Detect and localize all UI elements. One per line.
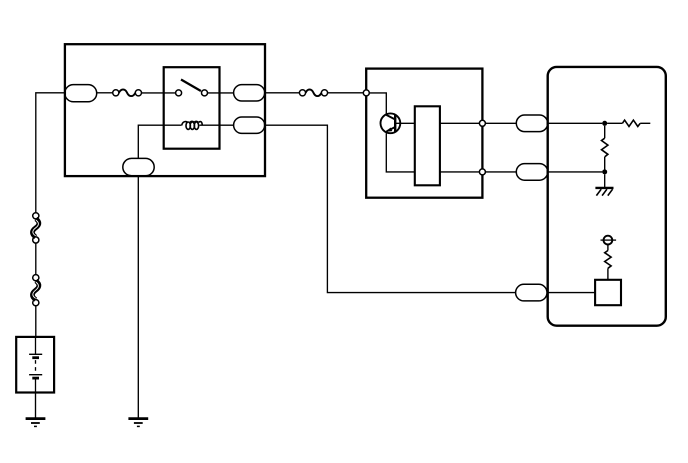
transistor Q1 [381, 113, 401, 133]
chassis ground in ECU [595, 188, 613, 196]
connector pill E [516, 115, 547, 132]
battery BAT1 [29, 337, 42, 393]
wire circle to transistor [369, 93, 386, 115]
wire coil feed riser from pill D [138, 125, 181, 158]
wire pill A to fuse F1 [97, 92, 113, 94]
wire fusible link to battery [35, 306, 37, 337]
wire driver to connector circle top [440, 122, 479, 124]
wire switch to pill B [208, 92, 234, 94]
relay coil L1 [182, 121, 203, 129]
wire transistor base to driver [395, 122, 415, 124]
junction J1 [602, 121, 607, 126]
wire fuse F2 to control module [328, 92, 366, 94]
wire pill E into ECU [548, 122, 603, 124]
wire pill D to ground [137, 176, 139, 418]
connector circle left [363, 90, 369, 96]
fuse F2 [299, 90, 327, 97]
wire circle to pill F [485, 171, 516, 173]
wire battery to ground [35, 393, 37, 419]
driver block U1 [415, 106, 440, 185]
wire J2 to chassis ground [604, 174, 606, 188]
relay switch contact left [176, 90, 182, 96]
wire circle to pill E [485, 122, 516, 124]
sensor block [595, 280, 621, 305]
wire fuse F1 to switch contact [142, 92, 176, 94]
relay switch contact right [202, 90, 208, 96]
ground below battery [26, 419, 46, 427]
wire pill B to fuse F2 [265, 92, 300, 94]
resistor R1 horizontal [607, 120, 650, 126]
connector pill B [234, 85, 265, 101]
wire coil to pill C [200, 124, 234, 126]
fusible link FL1 [32, 213, 38, 243]
wire driver to connector circle bottom [440, 171, 479, 173]
connector circle right top [479, 120, 485, 126]
connector pill F [516, 164, 547, 181]
wire transistor bottom to driver [386, 133, 415, 172]
resistor R3 vertical [605, 245, 611, 280]
fuse/relay box [65, 44, 265, 176]
resistor R2 vertical [602, 126, 608, 170]
ECU box [548, 67, 666, 326]
junction J2 [602, 169, 607, 174]
wire pill G to sensor block [547, 292, 595, 294]
wire pill C to pill G [265, 125, 516, 292]
connector pill D [123, 158, 154, 175]
relay box [164, 67, 220, 149]
fusible link FL2 [32, 275, 38, 306]
connector pill G [516, 284, 547, 301]
connector pill A [65, 85, 97, 102]
ground below relay box [128, 419, 148, 427]
control module box [366, 69, 482, 198]
wire pill F into ECU [548, 171, 603, 173]
sensor terminal circle [601, 236, 617, 245]
wire battery feed from pill A down left side [36, 93, 66, 213]
connector pill C [234, 117, 265, 133]
wire between fusible links [35, 243, 37, 274]
relay switch blade [181, 80, 201, 92]
connector circle right bottom [479, 169, 485, 175]
fuse F1 [113, 90, 142, 97]
battery box [16, 337, 54, 393]
